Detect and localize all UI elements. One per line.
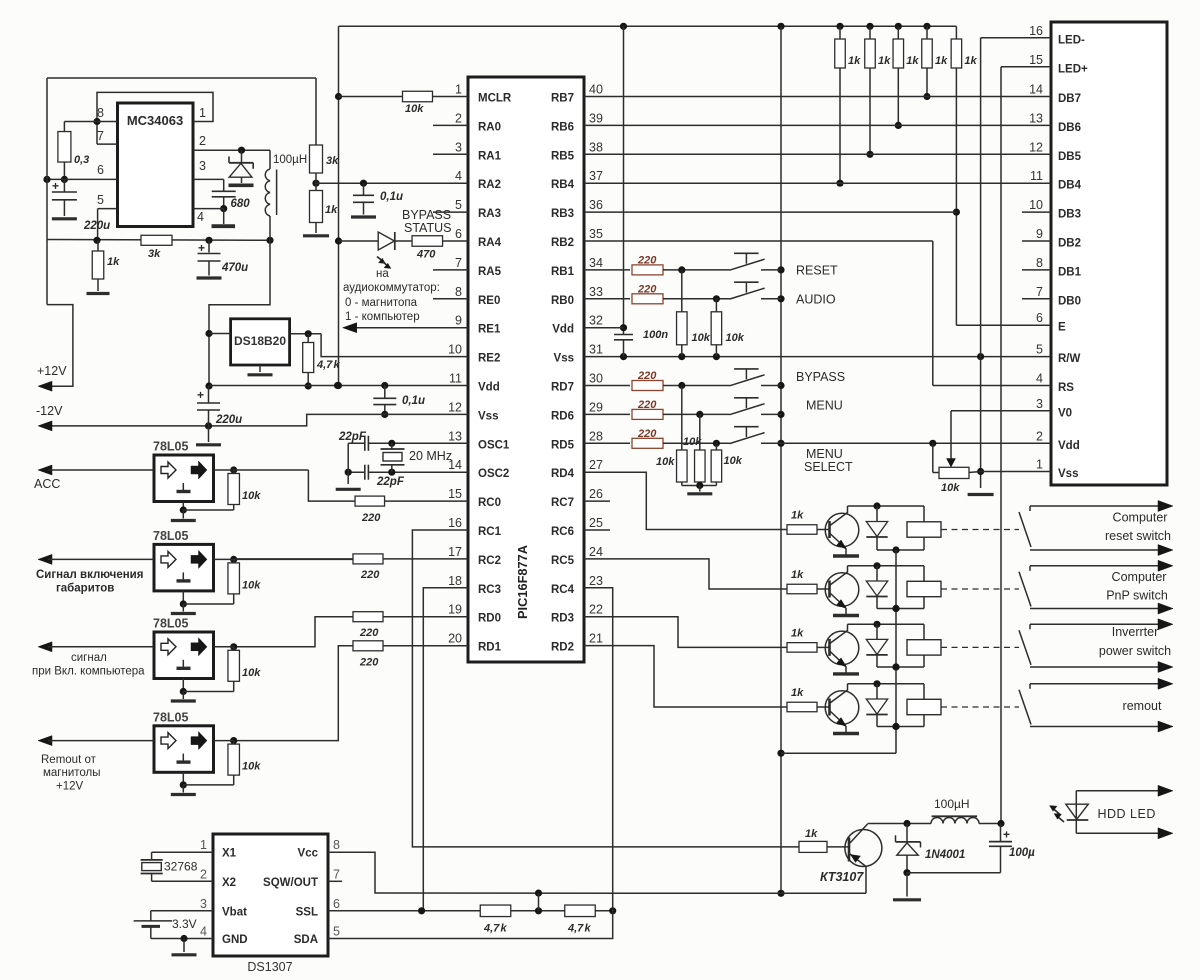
svg-text:4: 4	[455, 169, 462, 183]
svg-text:15: 15	[448, 487, 462, 501]
svg-text:16: 16	[448, 516, 462, 530]
svg-text:1k: 1k	[805, 828, 818, 840]
svg-text:8: 8	[455, 285, 462, 299]
svg-text:9: 9	[1036, 227, 1043, 241]
svg-text:Vbat: Vbat	[222, 906, 247, 918]
svg-text:31: 31	[589, 343, 603, 357]
svg-text:7: 7	[333, 867, 340, 881]
svg-text:1k: 1k	[878, 55, 891, 67]
svg-text:на: на	[376, 268, 389, 280]
svg-text:GND: GND	[222, 934, 248, 946]
svg-text:10k: 10k	[683, 436, 702, 448]
svg-text:3k: 3k	[148, 248, 161, 260]
svg-text:DB7: DB7	[1058, 93, 1081, 105]
svg-text:220: 220	[637, 283, 657, 295]
svg-text:SQW/OUT: SQW/OUT	[263, 877, 318, 889]
svg-text:10k: 10k	[242, 761, 261, 773]
svg-text:+12V: +12V	[37, 364, 67, 378]
svg-text:RC7: RC7	[551, 497, 574, 509]
svg-text:RA4: RA4	[478, 237, 502, 249]
svg-text:78L05: 78L05	[153, 440, 188, 454]
svg-text:12: 12	[1029, 140, 1043, 154]
svg-text:RD2: RD2	[551, 642, 574, 654]
svg-text:power switch: power switch	[1099, 644, 1171, 658]
svg-text:11: 11	[1030, 169, 1043, 183]
svg-text:1k: 1k	[791, 687, 804, 699]
svg-text:20: 20	[448, 632, 462, 646]
svg-text:6: 6	[333, 897, 340, 911]
svg-text:1k: 1k	[325, 204, 338, 216]
svg-text:220: 220	[359, 657, 379, 669]
svg-text:remout: remout	[1123, 699, 1162, 713]
svg-text:6: 6	[1036, 311, 1043, 325]
svg-text:78L05: 78L05	[153, 710, 188, 724]
svg-text:MENU: MENU	[806, 447, 843, 461]
svg-text:RB7: RB7	[551, 93, 574, 105]
svg-text:Vss: Vss	[554, 353, 574, 365]
svg-text:AUDIO: AUDIO	[796, 293, 836, 307]
svg-text:2: 2	[200, 867, 207, 881]
svg-text:RA3: RA3	[478, 208, 501, 220]
svg-text:1N4001: 1N4001	[925, 849, 965, 861]
svg-text:RD6: RD6	[551, 410, 574, 422]
svg-text:Vss: Vss	[478, 410, 498, 422]
svg-text:4: 4	[197, 210, 204, 224]
svg-text:1 - компьютер: 1 - компьютер	[345, 311, 420, 323]
svg-text:37: 37	[589, 169, 603, 183]
svg-text:9: 9	[455, 314, 462, 328]
svg-text:RE2: RE2	[478, 353, 500, 365]
svg-text:5: 5	[1036, 343, 1043, 357]
svg-text:RB1: RB1	[551, 266, 575, 278]
svg-text:8: 8	[1036, 256, 1043, 270]
svg-text:V0: V0	[1058, 407, 1072, 419]
svg-text:+: +	[1003, 828, 1010, 842]
svg-text:10k: 10k	[941, 482, 960, 494]
svg-text:220: 220	[359, 627, 379, 639]
svg-text:6: 6	[97, 163, 104, 177]
svg-text:DS1307: DS1307	[247, 960, 292, 974]
svg-text:220u: 220u	[215, 414, 242, 426]
svg-text:0,3: 0,3	[74, 154, 89, 166]
svg-text:Vdd: Vdd	[478, 382, 500, 394]
svg-text:RB2: RB2	[551, 237, 574, 249]
svg-text:OSC1: OSC1	[478, 439, 510, 451]
svg-text:RA5: RA5	[478, 266, 502, 278]
svg-text:28: 28	[589, 429, 603, 443]
svg-text:36: 36	[589, 198, 603, 212]
svg-text:470: 470	[416, 249, 436, 261]
svg-text:Vdd: Vdd	[552, 324, 574, 336]
svg-text:ACC: ACC	[34, 477, 60, 491]
svg-text:220: 220	[637, 428, 657, 440]
svg-text:5: 5	[333, 925, 340, 939]
svg-text:DB3: DB3	[1058, 209, 1081, 221]
svg-text:-12V: -12V	[36, 404, 63, 418]
svg-text:RC5: RC5	[551, 555, 575, 567]
svg-text:X1: X1	[222, 848, 237, 860]
svg-text:21: 21	[589, 632, 603, 646]
svg-text:RE0: RE0	[478, 295, 500, 307]
svg-text:RB4: RB4	[551, 179, 575, 191]
svg-text:Сигнал включения: Сигнал включения	[36, 569, 143, 581]
svg-text:5: 5	[97, 193, 104, 207]
svg-text:34: 34	[589, 256, 603, 270]
svg-text:1: 1	[200, 838, 207, 852]
svg-text:RD4: RD4	[551, 468, 575, 480]
svg-text:7: 7	[1036, 285, 1043, 299]
svg-text:32768: 32768	[164, 860, 198, 874]
svg-text:39: 39	[589, 111, 603, 125]
svg-text:RD0: RD0	[478, 613, 501, 625]
svg-text:RD1: RD1	[478, 642, 502, 654]
svg-text:RC6: RC6	[551, 526, 574, 538]
svg-text:10k: 10k	[656, 456, 675, 468]
svg-text:reset switch: reset switch	[1105, 529, 1171, 543]
svg-text:24: 24	[589, 545, 603, 559]
svg-text:RS: RS	[1058, 382, 1074, 394]
svg-text:3k: 3k	[326, 155, 339, 167]
svg-text:3: 3	[200, 897, 207, 911]
svg-text:DB1: DB1	[1058, 266, 1082, 278]
svg-text:4: 4	[1036, 372, 1043, 386]
svg-text:SSL: SSL	[296, 906, 318, 918]
svg-text:220: 220	[637, 399, 657, 411]
svg-text:18: 18	[448, 574, 462, 588]
svg-text:RD3: RD3	[551, 613, 574, 625]
svg-text:16: 16	[1029, 24, 1043, 38]
svg-text:100µH: 100µH	[934, 797, 970, 811]
svg-text:RESET: RESET	[796, 264, 838, 278]
svg-text:LED+: LED+	[1058, 63, 1088, 75]
svg-text:PnP switch: PnP switch	[1106, 589, 1168, 603]
svg-text:R/W: R/W	[1058, 353, 1081, 365]
svg-text:k: k	[585, 923, 592, 935]
svg-text:220: 220	[360, 569, 380, 581]
svg-text:HDD LED: HDD LED	[1098, 807, 1156, 821]
svg-text:4: 4	[200, 925, 207, 939]
svg-text:1: 1	[199, 106, 206, 120]
svg-text:габаритов: габаритов	[56, 583, 114, 595]
svg-text:4,7: 4,7	[567, 923, 584, 935]
svg-text:6: 6	[455, 227, 462, 241]
svg-text:+12V: +12V	[56, 781, 84, 793]
svg-text:BYPASS: BYPASS	[402, 208, 451, 222]
svg-text:78L05: 78L05	[153, 529, 188, 543]
svg-text:26: 26	[589, 487, 603, 501]
svg-text:0 - магнитопа: 0 - магнитопа	[345, 297, 418, 309]
svg-text:RB6: RB6	[551, 121, 574, 133]
svg-text:13: 13	[448, 429, 462, 443]
svg-text:КТ3107: КТ3107	[820, 870, 864, 884]
svg-text:100µH: 100µH	[273, 154, 307, 166]
svg-text:k: k	[334, 359, 341, 371]
svg-text:10k: 10k	[242, 667, 261, 679]
svg-text:4,7: 4,7	[483, 923, 500, 935]
svg-text:22pF: 22pF	[376, 476, 405, 488]
svg-text:RB0: RB0	[551, 295, 574, 307]
svg-text:Computer: Computer	[1113, 511, 1168, 525]
svg-text:12: 12	[448, 400, 462, 414]
svg-text:MC34063: MC34063	[127, 113, 183, 128]
svg-text:3: 3	[199, 159, 206, 173]
svg-text:Vcc: Vcc	[298, 848, 319, 860]
svg-text:1k: 1k	[791, 510, 804, 522]
svg-text:470u: 470u	[221, 262, 248, 274]
svg-text:20 MHz: 20 MHz	[409, 449, 452, 463]
svg-text:1k: 1k	[848, 55, 861, 67]
svg-text:RD7: RD7	[551, 382, 574, 394]
svg-text:DB5: DB5	[1058, 151, 1082, 163]
svg-text:13: 13	[1029, 111, 1043, 125]
svg-text:1k: 1k	[906, 55, 919, 67]
svg-text:25: 25	[589, 516, 603, 530]
svg-text:+: +	[197, 388, 204, 402]
svg-text:35: 35	[589, 227, 603, 241]
svg-text:32: 32	[589, 314, 603, 328]
svg-text:29: 29	[589, 400, 603, 414]
svg-text:7: 7	[97, 129, 104, 143]
svg-text:Vss: Vss	[1058, 468, 1078, 480]
svg-text:8: 8	[333, 838, 340, 852]
svg-text:RE1: RE1	[478, 324, 501, 336]
svg-text:RB5: RB5	[551, 150, 575, 162]
svg-text:2: 2	[455, 111, 462, 125]
svg-text:4,7: 4,7	[316, 359, 333, 371]
svg-text:10k: 10k	[242, 490, 261, 502]
svg-text:10k: 10k	[405, 103, 424, 115]
svg-text:10: 10	[448, 343, 462, 357]
svg-text:1: 1	[455, 83, 462, 97]
svg-text:100n: 100n	[643, 329, 668, 341]
svg-text:220: 220	[637, 254, 657, 266]
svg-text:RC1: RC1	[478, 526, 502, 538]
svg-text:RD5: RD5	[551, 439, 575, 451]
svg-text:23: 23	[589, 574, 603, 588]
svg-text:3.3V: 3.3V	[172, 917, 197, 931]
svg-text:1k: 1k	[791, 627, 804, 639]
svg-text:RC3: RC3	[478, 584, 501, 596]
svg-text:LED-: LED-	[1058, 34, 1085, 46]
svg-text:X2: X2	[222, 877, 236, 889]
svg-text:2: 2	[199, 134, 206, 148]
svg-text:OSC2: OSC2	[478, 468, 509, 480]
svg-text:MCLR: MCLR	[478, 93, 512, 105]
svg-text:Vdd: Vdd	[1058, 440, 1080, 452]
svg-text:RA1: RA1	[478, 150, 502, 162]
svg-text:сигнал: сигнал	[71, 652, 107, 664]
svg-text:RA0: RA0	[478, 121, 501, 133]
svg-text:27: 27	[589, 458, 603, 472]
svg-text:0,1u: 0,1u	[402, 395, 425, 407]
svg-text:0,1u: 0,1u	[380, 191, 403, 203]
svg-text:DB0: DB0	[1058, 295, 1081, 307]
svg-text:5: 5	[455, 198, 462, 212]
svg-text:10k: 10k	[692, 332, 711, 344]
svg-text:RC4: RC4	[551, 584, 575, 596]
svg-text:SDA: SDA	[294, 934, 318, 946]
svg-text:17: 17	[448, 545, 462, 559]
svg-text:Remout от: Remout от	[41, 754, 97, 766]
svg-text:магнитолы: магнитолы	[43, 767, 101, 779]
svg-text:STATUS: STATUS	[404, 221, 451, 235]
svg-text:MENU: MENU	[806, 399, 843, 413]
svg-text:аудиокоммутатор:: аудиокоммутатор:	[343, 282, 440, 294]
svg-text:DB6: DB6	[1058, 122, 1081, 134]
svg-text:RA2: RA2	[478, 179, 501, 191]
svg-text:14: 14	[1029, 83, 1043, 97]
svg-text:RC2: RC2	[478, 555, 501, 567]
svg-text:15: 15	[1029, 53, 1043, 67]
svg-text:78L05: 78L05	[153, 617, 188, 631]
svg-text:PIC16F877A: PIC16F877A	[515, 545, 530, 619]
svg-text:1: 1	[1036, 458, 1043, 472]
svg-text:10k: 10k	[726, 332, 745, 344]
svg-text:100µ: 100µ	[1009, 847, 1035, 859]
svg-text:DS18B20: DS18B20	[234, 334, 286, 348]
svg-text:33: 33	[589, 285, 603, 299]
svg-text:SELECT: SELECT	[804, 460, 853, 474]
svg-text:Inverrter: Inverrter	[1112, 625, 1159, 639]
svg-text:22pF: 22pF	[338, 431, 367, 443]
svg-text:Computer: Computer	[1112, 570, 1167, 584]
svg-text:при Вкл. компьютера: при Вкл. компьютера	[32, 666, 145, 678]
svg-text:3: 3	[455, 140, 462, 154]
svg-text:1k: 1k	[964, 55, 977, 67]
svg-text:220u: 220u	[83, 220, 110, 232]
svg-text:8: 8	[97, 106, 104, 120]
svg-text:DB4: DB4	[1058, 180, 1082, 192]
svg-text:2: 2	[1036, 429, 1043, 443]
svg-text:10k: 10k	[724, 455, 743, 467]
svg-text:RC0: RC0	[478, 497, 501, 509]
svg-text:10: 10	[1029, 198, 1043, 212]
svg-text:38: 38	[589, 140, 603, 154]
svg-text:3: 3	[1036, 397, 1043, 411]
svg-text:E: E	[1058, 322, 1066, 334]
svg-text:22: 22	[589, 603, 603, 617]
svg-text:220: 220	[361, 512, 381, 524]
svg-text:11: 11	[449, 372, 462, 386]
svg-text:1k: 1k	[107, 256, 120, 268]
svg-text:1k: 1k	[791, 569, 804, 581]
svg-text:1k: 1k	[935, 55, 948, 67]
svg-text:680: 680	[231, 198, 251, 210]
svg-text:k: k	[501, 923, 508, 935]
svg-text:BYPASS: BYPASS	[796, 370, 845, 384]
svg-text:19: 19	[448, 603, 462, 617]
svg-text:40: 40	[589, 83, 603, 97]
svg-text:RB3: RB3	[551, 208, 574, 220]
svg-text:+: +	[52, 179, 59, 193]
svg-text:10k: 10k	[242, 579, 261, 591]
svg-text:DB2: DB2	[1058, 238, 1081, 250]
svg-text:220: 220	[637, 370, 657, 382]
svg-text:7: 7	[455, 256, 462, 270]
svg-text:30: 30	[589, 372, 603, 386]
